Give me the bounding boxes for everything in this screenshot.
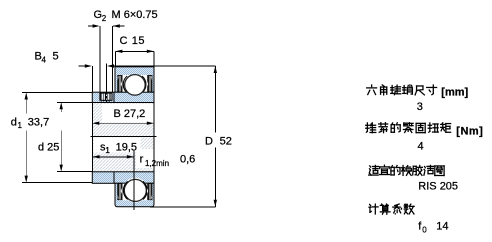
svg-text:14: 14 (436, 220, 448, 232)
svg-text:G: G (94, 9, 103, 21)
svg-text:0: 0 (422, 225, 427, 234)
dimension d1 extension lines (22, 92, 92, 94)
svg-text:19,5: 19,5 (116, 141, 137, 153)
bottom raceway pocket (123, 178, 148, 203)
top section seal right (147, 75, 152, 92)
bottom seal right (147, 183, 152, 200)
top section inner ring band (92, 92, 154, 102)
top section ball (125, 75, 146, 96)
svg-text:d: d (11, 116, 17, 128)
left face extension line (91, 103, 93, 172)
grub screw axis (106, 92, 108, 103)
dimension D bottom extension (150, 206, 215, 208)
dimension s1 line (92, 156, 134, 158)
panel label: recommended tightening torque [Nm] (366, 123, 376, 133)
panel label: hex key size [mm] (367, 85, 377, 95)
bearing center line (133, 151, 135, 210)
svg-text:0,6: 0,6 (180, 153, 195, 165)
svg-text:4: 4 (42, 55, 47, 64)
dimension B4 left arrow (79, 65, 86, 67)
top section right raceway arc (142, 76, 146, 93)
svg-text:[mm]: [mm] (441, 86, 468, 98)
panel label: calculation factor (369, 204, 378, 214)
svg-text:B 27,2: B 27,2 (114, 108, 146, 120)
bottom left raceway arc (123, 181, 127, 199)
svg-text:4: 4 (418, 140, 424, 152)
dimension G2 arrows (88, 25, 93, 27)
svg-text:D: D (205, 135, 213, 147)
shaft center axis line (91, 135, 157, 137)
top section seal left (117, 75, 122, 92)
bottom section outer ring (115, 183, 154, 207)
grub screw (100, 93, 112, 100)
dimension C extension lines (114, 51, 116, 66)
svg-text:M 6×0.75: M 6×0.75 (112, 9, 158, 21)
svg-text:52: 52 (220, 135, 232, 147)
svg-text:r: r (140, 153, 144, 165)
text background boxes (102, 104, 162, 123)
dimension B right extension line (153, 103, 155, 172)
bottom seal left (117, 183, 122, 200)
svg-text:1,2min: 1,2min (145, 159, 169, 168)
svg-text:3: 3 (417, 101, 423, 113)
top section cavity (119, 75, 148, 92)
svg-text:C 15: C 15 (120, 35, 146, 47)
dimension d extension lines (57, 101, 92, 103)
shaft cross-section hatch (92, 103, 154, 172)
panel label: suitable rubber seating ring (369, 165, 379, 175)
svg-text:5: 5 (53, 51, 59, 63)
svg-text:[Nm]: [Nm] (456, 125, 483, 137)
collar / inner ring boundary (113, 92, 115, 102)
dimension C line (115, 50, 153, 52)
top section left raceway arc (123, 76, 127, 93)
svg-text:d 25: d 25 (38, 141, 59, 153)
svg-text:1: 1 (105, 146, 110, 155)
bottom collar boundary (113, 172, 115, 184)
svg-text:RIS 205: RIS 205 (418, 181, 458, 193)
svg-text:2: 2 (102, 14, 107, 23)
dimension d line (60, 102, 62, 112)
svg-text:33,7: 33,7 (28, 116, 49, 128)
dimension G2 thread extension lines (99, 26, 101, 92)
bottom right raceway arc (143, 181, 147, 199)
dimension D line (214, 66, 216, 133)
bottom section inner ring band (92, 172, 154, 184)
bottom section cavity (119, 184, 148, 201)
dimension B4 right arrow and D extension line (106, 64, 108, 93)
dimension d1 line (25, 93, 27, 114)
svg-text:1: 1 (18, 121, 23, 130)
bottom section ball (124, 179, 146, 201)
top section outer ring (115, 67, 154, 92)
dimension B line (92, 122, 154, 124)
